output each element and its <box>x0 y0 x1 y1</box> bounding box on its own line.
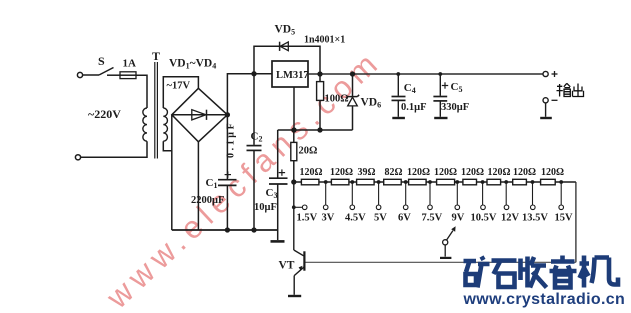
svg-text:S: S <box>98 54 105 68</box>
tap 4.5V <box>351 182 353 205</box>
diode VD5 <box>279 42 281 51</box>
zener diode VD6 <box>352 74 354 96</box>
wire <box>107 74 120 76</box>
svg-text:LM317: LM317 <box>276 70 309 81</box>
svg-text:82Ω: 82Ω <box>385 167 403 178</box>
wire LM317 output <box>308 73 543 75</box>
node bypass right <box>318 72 322 76</box>
tap 9V <box>456 182 458 205</box>
ground under C3 <box>277 230 279 240</box>
fuse 1A <box>120 72 136 79</box>
resistor R8 120ohm <box>487 179 501 185</box>
tap 6V <box>405 182 407 205</box>
wire chain right drop <box>575 182 577 262</box>
svg-text:1n4001×1: 1n4001×1 <box>304 35 345 46</box>
svg-text:0.1μF: 0.1μF <box>401 102 427 113</box>
resistor 20ohm <box>293 130 295 142</box>
svg-text:39Ω: 39Ω <box>358 167 376 178</box>
svg-text:3V: 3V <box>322 213 335 224</box>
wire to LM317 input <box>227 74 272 115</box>
label output chinese (shu chu) <box>557 83 584 96</box>
svg-text:VT: VT <box>279 260 295 272</box>
capacitor C2 0.1uF <box>253 74 255 145</box>
terminal - <box>543 98 548 103</box>
logo crystalradio chinese (kuang shi shou yin ji) <box>464 256 619 288</box>
svg-text:120Ω: 120Ω <box>541 167 564 178</box>
resistor R7 120ohm <box>463 179 477 185</box>
capacitor C1 2200uF <box>226 115 228 179</box>
resistor R10 120ohm <box>541 179 556 185</box>
svg-text:10μF: 10μF <box>254 202 277 213</box>
svg-text:T: T <box>152 49 160 63</box>
svg-text:9V: 9V <box>452 213 465 224</box>
svg-text:~220V: ~220V <box>88 107 121 121</box>
svg-text:13.5V: 13.5V <box>522 213 548 224</box>
svg-text:120Ω: 120Ω <box>407 167 430 178</box>
tap 13.5V <box>532 182 534 205</box>
node VD5/C2 junction <box>252 72 256 76</box>
wire bridge bottom corner down <box>197 142 199 230</box>
svg-text:15V: 15V <box>555 213 574 224</box>
svg-text:120Ω: 120Ω <box>488 167 511 178</box>
svg-text:120Ω: 120Ω <box>434 167 457 178</box>
wire secondary bottom <box>163 141 172 151</box>
tap 10.5V <box>482 182 484 205</box>
svg-text:10.5V: 10.5V <box>471 213 497 224</box>
tap 7.5V <box>429 182 431 205</box>
capacitor C4 0.1uF <box>392 72 406 118</box>
bridge rectifier VD1-VD4 diamond <box>172 88 228 142</box>
svg-text:5V: 5V <box>374 213 387 224</box>
capacitor C5 330uF <box>433 72 448 118</box>
svg-text:VD1~VD4: VD1~VD4 <box>169 58 216 71</box>
resistor R1 120ohm <box>301 179 319 185</box>
node VD6 top <box>351 72 355 76</box>
switch S <box>99 68 114 76</box>
ground C4 <box>392 117 405 119</box>
terminal input bottom <box>75 155 80 160</box>
svg-text:~17V: ~17V <box>167 81 191 92</box>
transistor VT <box>288 207 576 296</box>
bridge inner diode <box>172 114 228 116</box>
wire <box>81 141 147 157</box>
svg-text:6V: 6V <box>398 213 411 224</box>
wire VT base rail <box>306 261 576 263</box>
wire <box>83 74 99 76</box>
tap 12V <box>505 182 507 205</box>
resistor R9 120ohm <box>513 179 527 185</box>
adj rail <box>278 129 353 131</box>
svg-text:120Ω: 120Ω <box>461 167 484 178</box>
svg-text:1A: 1A <box>123 58 137 70</box>
selector switch <box>440 226 456 258</box>
svg-text:4.5V: 4.5V <box>345 213 366 224</box>
node bridge output + <box>226 113 230 117</box>
ground C5 <box>434 117 447 119</box>
svg-text:12V: 12V <box>501 213 520 224</box>
resistor R5 120ohm <box>409 179 427 185</box>
chain rail <box>294 181 576 183</box>
wire bridge left corner down to bottom rail <box>171 115 173 230</box>
output terminals <box>540 71 557 118</box>
taps with circles <box>292 182 564 210</box>
resistor R6 120ohm <box>437 179 455 185</box>
wire secondary top <box>163 77 198 108</box>
terminal + <box>543 71 548 76</box>
svg-text:7.5V: 7.5V <box>422 213 443 224</box>
transformer T primary winding <box>143 108 147 141</box>
tap 3V <box>325 182 327 205</box>
diode VD5 loop <box>254 46 320 74</box>
svg-text:2200μF: 2200μF <box>191 195 224 206</box>
svg-text:1.5V: 1.5V <box>297 213 318 224</box>
watermark www.elecfans.com (red diagonal) <box>98 42 388 313</box>
resistor chain boxes <box>301 179 555 185</box>
resistor R4 82ohm <box>384 179 402 185</box>
ground under - terminal <box>545 103 547 117</box>
svg-text:120Ω: 120Ω <box>330 167 353 178</box>
svg-text:120Ω: 120Ω <box>300 167 323 178</box>
svg-text:20Ω: 20Ω <box>299 146 318 157</box>
resistor R3 39ohm <box>357 179 375 185</box>
wire LM317 adj leg <box>293 87 295 130</box>
op-amp U1 LM317 box <box>272 61 308 87</box>
svg-text:100Ω: 100Ω <box>325 94 349 105</box>
tap junction dots <box>324 180 563 184</box>
tap 1.5V <box>293 182 295 207</box>
tap 5V <box>378 182 380 205</box>
transformer T secondary winding <box>163 108 167 141</box>
bottom rail <box>172 229 278 231</box>
capacitor C3 10uF <box>277 130 279 178</box>
resistor R2 120ohm <box>331 179 349 185</box>
svg-text:120Ω: 120Ω <box>513 167 536 178</box>
ground VT emitter <box>288 295 301 297</box>
tap 15V <box>560 182 562 205</box>
transformer T core <box>154 62 156 159</box>
resistor 100ohm <box>319 74 321 82</box>
svg-text:0.1μF: 0.1μF <box>226 121 237 158</box>
wire <box>136 75 147 108</box>
terminal input top <box>77 72 82 77</box>
svg-text:www.crystalradio.cn: www.crystalradio.cn <box>463 291 626 308</box>
svg-text:330μF: 330μF <box>441 102 469 113</box>
